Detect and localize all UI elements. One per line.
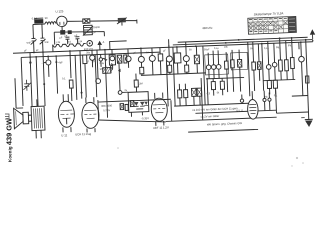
coil L4 vertical [110,63,112,72]
capacitor C13 [130,100,134,106]
svg-text:50: 50 [189,48,192,51]
svg-text:2x: 2x [124,89,127,92]
wire v75 [75,55,77,99]
capacitor C7 var [23,80,31,91]
trimmer T7 [89,50,95,67]
svg-text:UBF 11 1,2V: UBF 11 1,2V [153,125,169,130]
tube V1 output UL11 [58,94,75,133]
bus rail R4 left box top [21,52,160,57]
capacitor C11 [191,88,196,105]
svg-text:µF: µF [36,49,39,52]
wire bottom rail B2 [195,110,276,113]
svg-text:50µ: 50µ [288,44,293,47]
capacitor C12 [197,88,202,105]
svg-text:400-3000: 400-3000 [101,103,113,107]
svg-text:U 125: U 125 [55,9,63,13]
tube V3 UBF11 [151,92,168,126]
wire bottom rail B1 [166,117,277,121]
resistor RB3 [290,57,294,68]
svg-text:2M: 2M [139,82,143,85]
svg-text:µF: µF [59,36,63,39]
wire vB280 [279,38,282,60]
speaker LS [14,108,29,129]
junction dot v56 [55,61,57,63]
svg-text:alle Spann. geg. Chassis GW: alle Spann. geg. Chassis GW [207,121,243,126]
resistor R7 [83,55,89,98]
svg-text:25k: 25k [264,95,269,98]
svg-text:50: 50 [45,16,49,20]
bus rail R3 main [13,42,313,54]
capacitor C9 [158,48,164,75]
svg-text:UY 11: UY 11 [236,108,244,112]
capacitor C1 [26,38,37,52]
trimmer TA2 [211,65,216,70]
inductor L1 mains choke [45,22,56,24]
resistor RA2 [230,50,235,78]
wire OT top [35,99,41,138]
diode D3 [144,102,148,106]
resistor R6 [183,84,188,106]
potentiometer P1 [117,18,127,26]
trimmer TB2 [272,62,277,67]
trimmer circle M8 [183,42,190,74]
resistor RA4 [220,78,225,95]
svg-text:5k: 5k [217,91,220,94]
shield box V3 top [98,99,171,102]
antenna stub node [98,42,101,50]
capacitor C8 [117,55,122,63]
resistor RA3 [211,79,216,96]
svg-text:UCH 11 mag: UCH 11 mag [75,132,92,137]
left box edge [21,57,23,105]
svg-text:~0,35V: ~0,35V [141,116,150,120]
svg-text:ca 100 mV am Gitter der UCH 11: ca 100 mV am Gitter der UCH 11 gem. [192,106,238,112]
svg-text:0,3: 0,3 [207,92,211,95]
svg-text:4µF: 4µF [58,61,63,64]
svg-text:2x500: 2x500 [93,26,101,29]
resistor RA1 [224,52,229,78]
wire v80 [80,51,82,99]
resistor R8 [124,55,127,63]
shield box A2 [231,52,248,70]
svg-text:Skalenlampe 7V 0,3A: Skalenlampe 7V 0,3A [254,11,284,16]
capacitor dot c240 [240,94,244,102]
svg-text:50pF: 50pF [204,48,210,51]
svg-text:µF: µF [24,49,27,52]
coupling module M0 [99,54,107,67]
wire tube V5 cathode [61,27,63,33]
svg-text:1,5k: 1,5k [78,40,83,43]
svg-text:0,7/9V: 0,7/9V [103,109,110,112]
svg-text:0,2A: 0,2A [32,16,38,20]
scan specks [117,147,304,167]
resistor R3 [134,73,139,93]
trimmer TA1 [206,65,211,70]
wire vB286 [285,41,288,60]
resistor R5 [177,84,182,106]
capacitor dot c267 [268,92,272,110]
wire vB292 [291,38,294,58]
trimmer CT1 [87,40,93,46]
svg-text:µF: µF [64,35,68,38]
junction dot v43 [43,83,45,85]
wire drop from fuse node [32,24,35,38]
IF transformer T1 [109,49,116,68]
inductor L2 oscillator coil [53,43,86,47]
wire v36 [36,57,38,106]
rectifier feed column [251,42,262,92]
wire vA218 [217,50,220,64]
coil L3 [125,56,131,68]
wire L2 left drop [52,45,54,52]
svg-text:50µ: 50µ [276,46,281,49]
resistor RB1 [278,60,282,71]
electrolytic CB1 [298,42,306,96]
wire riser rail left end [168,39,170,47]
bottom right box [276,89,309,113]
wire v30 [30,53,32,107]
shield box V3 right [170,100,173,121]
svg-text:5nF: 5nF [27,42,32,45]
capacitor C3 block [60,30,65,35]
trimmer TA3 [216,64,221,69]
wire vA213 [212,51,215,65]
svg-text:A: A [103,41,105,44]
tube V2 UCH11 [81,97,99,133]
resistor R9 [125,104,128,110]
wire v121 down [119,61,120,90]
trimmer circle M4 [149,48,156,75]
wire mid bottom rail [141,73,206,75]
wire drop node B [41,24,44,38]
junction dot v30 [29,61,31,63]
wire mains chain top [33,19,137,28]
wire hA [206,77,244,78]
wire vB299 [298,42,300,49]
svg-text:30p: 30p [86,51,91,54]
demodulator box [128,92,149,113]
wire vA208 [207,53,209,65]
wire v56 [56,56,57,93]
bus rail R1 [178,37,308,42]
trimmer TB1 [266,65,271,70]
wire v14 [15,78,23,108]
title text Koenig 439 GW [5,114,14,162]
wire bottom rail B3 [188,129,258,132]
wire hB [263,79,295,80]
svg-text:µF: µF [163,49,166,52]
resistor R2 [69,80,73,101]
arrow tap [118,69,121,73]
capacitor C5 [65,37,69,44]
resistor Rright [305,76,309,83]
rectifier tube V4 [247,91,258,119]
wire drops B [269,66,293,80]
wire v128 [127,49,129,56]
shield box A [205,54,229,75]
wire vB262 [262,44,264,91]
trimmer circle M3 [138,48,145,67]
capacitor C10 [194,46,200,73]
wire v95 [95,55,97,97]
wire tier2 [54,30,104,44]
IF transformer T2 [174,47,182,74]
trimmer circle M6 [166,45,173,74]
capacitor C6 [75,37,79,44]
svg-text:Koenig 439 GW: Koenig 439 GW [5,118,14,162]
tuning gang C4 [82,25,93,35]
svg-text:U 11: U 11 [61,133,68,137]
svg-text:10k: 10k [224,45,229,48]
ground symbol [301,117,313,127]
wire diodes [131,109,143,117]
diode D1 [134,102,139,106]
resistor R4 [140,67,144,75]
resistor R20 [83,19,90,24]
svg-text:1,2k: 1,2k [56,41,61,44]
output transformer T3 [28,106,45,131]
wire v70 [70,51,71,78]
bus rail R2 [173,40,313,45]
wire rect rail [174,103,248,106]
tube table grid [248,16,297,34]
wire v105 [105,50,108,118]
wire v97 [97,50,98,78]
svg-text:µF: µF [74,34,78,37]
connector mark left edge [5,114,9,119]
diode D2 [140,102,145,106]
svg-text:0,1: 0,1 [62,77,66,80]
capacitor C14 [120,104,124,110]
wire AGC hook [110,41,127,50]
resistor RB4 [267,80,272,94]
wire bottom diag [99,117,166,124]
svg-text:0,1µ: 0,1µ [264,47,269,50]
wire v166 [166,47,175,106]
svg-text:0,1µ: 0,1µ [99,62,104,65]
shield box V3 left [97,100,100,120]
wire vB306 [306,40,309,120]
antenna arrow top right [310,30,314,41]
resistor R1 [44,56,52,77]
junction dots bus [29,36,307,58]
pilot lamp LP1 [118,90,128,94]
tube V5 ballast UY-circle [56,16,67,27]
svg-text:5nF: 5nF [45,41,50,44]
hatch box det [103,68,111,74]
svg-text:0,1µ: 0,1µ [214,47,219,50]
wire v42 drop [43,52,45,106]
wire vB268 [267,41,270,64]
wire bottom link right [292,94,308,97]
svg-text:468 kHz: 468 kHz [202,26,213,30]
resistor RB2 [284,60,288,71]
capacitor CA1 [237,50,242,78]
right cluster A box [203,42,250,105]
wire v200 [201,78,209,120]
svg-text:3,5: 3,5 [68,41,72,44]
junction dot v80 [81,92,83,94]
svg-text:ca 2V am Gitter: ca 2V am Gitter [200,114,219,119]
wire vB274 [273,43,276,62]
capacitor dot c262 [263,91,267,111]
wire drops A [209,69,241,93]
fuse F1 [34,18,43,24]
coil dot C97 [96,79,101,84]
capacitor C2 [39,38,49,52]
resistor RB5 [273,80,278,94]
